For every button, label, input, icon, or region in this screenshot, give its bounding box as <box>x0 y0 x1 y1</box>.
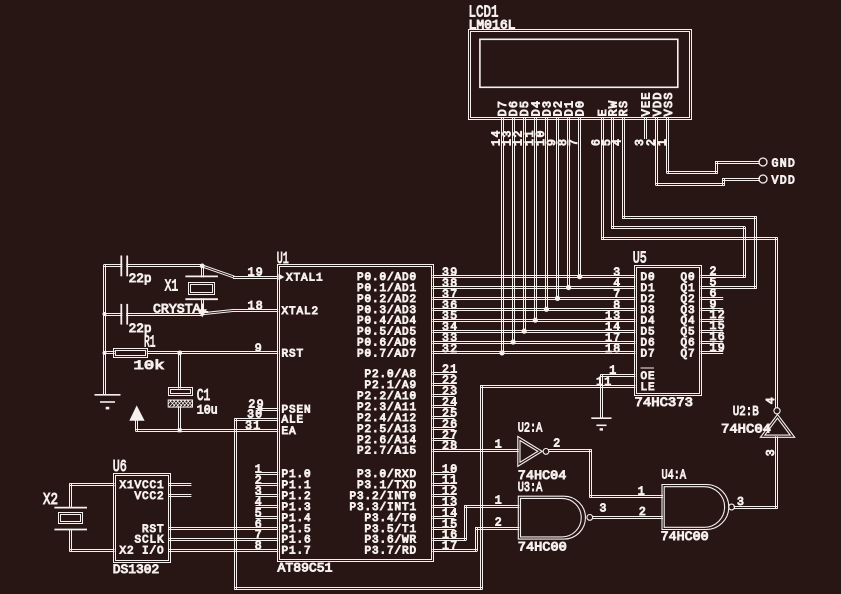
wire P0.1 bus <box>432 286 635 288</box>
wire LCD VDD down <box>655 118 657 186</box>
wire P3.3 pin <box>432 505 454 507</box>
wire ALE rail up <box>480 385 482 589</box>
svg-text:VCC2: VCC2 <box>134 491 164 503</box>
capacitor C1 top plate <box>169 388 193 396</box>
nand U3:A <box>518 496 585 539</box>
wire EA pin <box>136 429 279 431</box>
crystal X1 top plate <box>185 275 218 277</box>
wire P2.2 pin <box>432 394 454 396</box>
wire cap top left <box>104 264 123 266</box>
wire Q4 stub <box>701 319 724 321</box>
wire LCD RS down <box>622 118 624 218</box>
wire LCD VEE stub <box>644 118 646 139</box>
svg-text:LM016L: LM016L <box>469 17 516 32</box>
wire LCD E down <box>601 118 603 240</box>
svg-text:P3.7/RD: P3.7/RD <box>364 546 417 558</box>
svg-text:18: 18 <box>605 343 621 356</box>
resistor R1 <box>114 349 148 358</box>
wire XTAL1 pin <box>233 276 278 278</box>
wire P1.0 stub <box>256 472 279 474</box>
inverter U2:B <box>760 414 794 437</box>
wire P0.7 bus <box>432 351 635 353</box>
wire LCD D5 to P0 bus <box>523 118 525 332</box>
svg-text:74HC00: 74HC00 <box>661 529 709 544</box>
svg-text:19: 19 <box>248 267 264 280</box>
crystal X2 body <box>59 513 83 524</box>
wire P0.3 bus <box>432 308 635 310</box>
wire Q3 stub <box>701 308 724 310</box>
wire VDD horizontal <box>656 183 725 185</box>
wire cap bottom left <box>104 313 123 315</box>
svg-text:GND: GND <box>772 158 797 171</box>
wire RST pin <box>147 351 278 353</box>
svg-text:VDD: VDD <box>772 175 797 188</box>
wire crystal top stem <box>201 265 203 278</box>
svg-text:10k: 10k <box>134 358 165 373</box>
wire PSEN stub <box>256 408 279 410</box>
wire LCD D4 to P0 bus <box>534 118 536 321</box>
wire P0.6 bus <box>432 341 635 343</box>
wire arrow stem <box>135 419 137 431</box>
svg-text:DS1302: DS1302 <box>113 562 160 577</box>
wire VCC1 stub <box>169 483 191 485</box>
wire LCD D6 to P0 bus <box>512 118 514 343</box>
wire RST to C1 <box>178 352 180 389</box>
junction dot D0/P0.0 <box>577 274 582 279</box>
wire RS horizontal <box>622 216 757 218</box>
svg-text:X1: X1 <box>120 480 135 492</box>
wire LCD D1 to P0 bus <box>567 118 569 289</box>
svg-text:Q7: Q7 <box>680 348 695 360</box>
wire P1.5 to U6 RST <box>169 527 278 529</box>
nand U4:A <box>662 485 729 530</box>
U6 body <box>114 474 171 563</box>
wire VSS horizontal <box>667 171 718 173</box>
terminal GND <box>759 158 767 166</box>
junction dot D5/P0.5 <box>522 329 527 334</box>
svg-text:R1: R1 <box>144 334 156 353</box>
svg-text:RS: RS <box>617 100 631 117</box>
svg-text:2: 2 <box>553 438 561 451</box>
wire XTAL2 pin <box>233 309 278 311</box>
svg-text:VSS: VSS <box>662 91 676 116</box>
power terminal arrow <box>130 407 144 421</box>
wire LCD D0 to P0 bus <box>578 118 580 278</box>
wire P1.4 stub <box>256 516 279 518</box>
wire OE pin <box>600 374 635 376</box>
junction dot RST <box>177 351 182 356</box>
wire Q1 <box>701 286 757 288</box>
capacitor C1 bottom plate (polarized) <box>168 400 192 407</box>
svg-text:XTAL1: XTAL1 <box>286 273 324 285</box>
wire P3.6 pin <box>432 538 466 540</box>
LCD1 display screen area <box>480 39 678 87</box>
svg-text:74HC00: 74HC00 <box>518 539 567 554</box>
wire P3.4 pin <box>432 516 454 518</box>
wire Q2 stub <box>701 297 724 299</box>
svg-text:10u: 10u <box>197 403 218 418</box>
wire cap bottom right <box>126 313 203 315</box>
wire VDD jog up <box>722 178 724 186</box>
svg-text:P1.7: P1.7 <box>282 546 312 558</box>
wire P2.7 pin <box>432 449 518 451</box>
svg-text:4: 4 <box>765 397 778 404</box>
junction dot D2/P0.2 <box>555 296 560 301</box>
wire C1 down <box>178 406 180 431</box>
capacitor C bottom 22p plates <box>120 304 122 325</box>
wire P2.6 pin <box>432 438 454 440</box>
svg-text:3: 3 <box>600 503 608 516</box>
junction dot rail rst <box>103 351 107 355</box>
junction dot crystal top <box>200 264 205 269</box>
wire P1.2 stub <box>256 494 279 496</box>
capacitor C top 22p plates <box>120 256 122 277</box>
wire OE down to ground <box>600 374 602 418</box>
wire U2:A out down <box>589 449 591 497</box>
junction dot D6/P0.6 <box>510 339 515 344</box>
junction arrow crystal bottom <box>197 309 207 317</box>
wire P0.5 bus <box>432 330 635 332</box>
svg-text:U2:B: U2:B <box>733 404 759 420</box>
svg-text:1: 1 <box>495 439 503 452</box>
junction square C1/EA <box>178 428 182 432</box>
crystal X2 top plate <box>54 507 87 509</box>
inverter U2:A <box>518 436 542 466</box>
wire P3.0 pin <box>432 472 454 474</box>
wire to U4 in1 <box>590 495 664 497</box>
wire P2.5 pin <box>432 427 454 429</box>
wire U6 X2 up <box>69 529 71 551</box>
wire cap top right <box>126 264 203 266</box>
svg-text:1: 1 <box>638 486 646 499</box>
junction dot D4/P0.4 <box>533 318 538 323</box>
wire RW horizontal <box>611 226 745 228</box>
svg-text:U1: U1 <box>277 250 289 269</box>
crystal X1 bottom plate <box>185 298 218 300</box>
junction dot PSEN <box>258 406 263 411</box>
wire P2.3 pin <box>432 405 454 407</box>
svg-text:3: 3 <box>765 449 778 456</box>
svg-text:1: 1 <box>656 137 669 146</box>
wire left rail <box>103 265 105 395</box>
svg-text:U6: U6 <box>113 458 127 477</box>
ground symbol left <box>95 395 121 410</box>
junction dot D1/P0.1 <box>566 285 571 290</box>
wire LCD D7 to P0 bus <box>501 118 503 354</box>
wire P3.6 jog up <box>464 505 466 540</box>
svg-text:P2.7/A15: P2.7/A15 <box>357 446 417 458</box>
svg-text:U3:A: U3:A <box>518 480 543 496</box>
svg-text:11: 11 <box>596 376 612 389</box>
wire P2.4 pin <box>432 416 454 418</box>
wire P1.7 to U6 I/O <box>169 549 278 551</box>
wire LCD RW down <box>611 118 613 229</box>
XTAL1 clock arrow <box>279 274 285 280</box>
svg-text:U5: U5 <box>633 249 647 268</box>
wire U3 in2 <box>475 527 519 529</box>
svg-text:D7: D7 <box>641 348 656 360</box>
wire Q7 stub <box>701 351 724 353</box>
wire U6 X1 left <box>69 483 114 485</box>
wire P0.4 bus <box>432 319 635 321</box>
wire P0.0 bus <box>432 275 635 277</box>
svg-text:X1: X1 <box>165 278 179 297</box>
svg-text:XTAL2: XTAL2 <box>282 306 320 318</box>
wire ALE rail bottom <box>235 587 483 589</box>
wire Q6 stub <box>701 341 724 343</box>
svg-text:32: 32 <box>442 343 458 356</box>
wire LCD D2 to P0 bus <box>556 118 558 299</box>
svg-text:18: 18 <box>248 300 264 313</box>
wire LCD VSS down <box>666 118 668 174</box>
svg-text:7: 7 <box>568 137 581 146</box>
svg-text:RST: RST <box>282 348 305 360</box>
svg-text:CRYSTAL: CRYSTAL <box>153 301 209 316</box>
wire U3 in1 <box>464 505 519 507</box>
wire P0.2 bus <box>432 297 635 299</box>
wire P2.0 pin <box>432 372 454 374</box>
wire RS vertical to Q1 <box>754 216 756 288</box>
wire P2.1 pin <box>432 383 454 385</box>
wire RW vertical to Q0 <box>743 227 745 278</box>
svg-text:17: 17 <box>442 540 458 553</box>
U5 body <box>635 266 702 396</box>
terminal VDD <box>759 175 767 183</box>
svg-text:31: 31 <box>245 420 261 433</box>
wire LCD D3 to P0 bus <box>545 118 547 310</box>
wire Q0 <box>701 275 746 277</box>
wire P3.7 pin <box>432 549 477 551</box>
wire U6 X1 down <box>69 483 71 508</box>
wire crystal bottom stem <box>201 298 203 315</box>
wire GND to terminal <box>716 161 760 163</box>
wire P3.2 pin <box>432 494 454 496</box>
wire P3.7 jog up <box>475 527 477 551</box>
crystal X1 body <box>189 283 215 295</box>
junction dot rail cap <box>103 312 107 316</box>
svg-text:74HC04: 74HC04 <box>721 422 771 437</box>
svg-text:I/O: I/O <box>142 546 165 558</box>
svg-text:D0: D0 <box>574 100 588 117</box>
wire E horizontal <box>601 237 778 239</box>
wire U2:A out <box>548 449 591 451</box>
wire VCC2 stub <box>169 494 191 496</box>
crystal X2 bottom plate <box>54 529 87 531</box>
wire P3.1 pin <box>432 483 454 485</box>
svg-text:EA: EA <box>282 426 297 438</box>
wire P1.6 to U6 SCLK <box>169 538 278 540</box>
wire U3:A out to U4 in2 <box>592 516 663 518</box>
svg-text:LE: LE <box>641 382 656 394</box>
wire ALE rail down <box>234 418 236 589</box>
svg-text:U2:A: U2:A <box>518 420 543 436</box>
svg-text:P0.7/AD7: P0.7/AD7 <box>357 348 417 360</box>
wire rail to R1 <box>104 351 115 353</box>
wire U4 out up to U2:B <box>775 436 777 508</box>
wire P1.3 stub <box>256 505 279 507</box>
wire VDD to terminal <box>723 178 760 180</box>
wire diagonal to XTAL1 <box>202 267 234 278</box>
svg-text:28: 28 <box>442 440 458 453</box>
wire GND jog up <box>715 161 717 174</box>
wire Q5 stub <box>701 330 724 332</box>
svg-text:U4:A: U4:A <box>662 468 687 484</box>
ground symbol U5 <box>591 418 611 430</box>
wire diagonal to XTAL2 <box>202 311 234 314</box>
svg-text:AT89C51: AT89C51 <box>278 561 333 576</box>
U1 body <box>278 265 434 562</box>
svg-text:74HC373: 74HC373 <box>635 395 694 410</box>
junction dot D3/P0.3 <box>544 307 549 312</box>
svg-text:2: 2 <box>639 506 647 519</box>
wire P3.5 pin <box>432 527 454 529</box>
LCD1 display LM016L body <box>469 30 692 120</box>
wire U4:A out <box>734 506 778 508</box>
wire ALE pin <box>235 418 279 420</box>
wire LE horizontal <box>480 385 635 387</box>
svg-text:X2: X2 <box>43 491 58 510</box>
wire E vertical to U2:B <box>775 238 777 409</box>
svg-text:X2: X2 <box>120 546 135 558</box>
svg-text:22p: 22p <box>129 271 152 286</box>
wire P1.1 stub <box>256 483 279 485</box>
wire U6 X2 left <box>69 549 114 551</box>
junction dot D7/P0.7 <box>499 350 504 355</box>
